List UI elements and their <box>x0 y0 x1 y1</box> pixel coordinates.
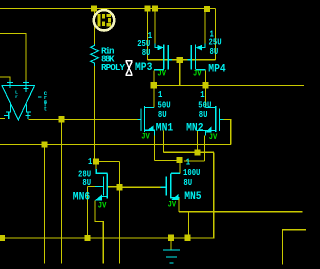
svg-text:1: 1 <box>200 89 205 100</box>
wire MN6 gate stub <box>88 186 96 188</box>
ground symbol <box>163 250 180 263</box>
svg-text:JV: JV <box>209 133 218 142</box>
svg-text:MN1: MN1 <box>156 122 174 134</box>
svg-text:JV: JV <box>98 202 107 211</box>
svg-text:8U: 8U <box>199 109 208 120</box>
wire gate bus <box>148 59 216 61</box>
svg-text:1: 1 <box>186 156 191 167</box>
MN2 labels <box>186 89 211 134</box>
wire MP3 source drop <box>154 9 156 44</box>
svg-text:r: r <box>15 95 18 100</box>
MP4 labels <box>208 29 226 76</box>
junction square mirror tie <box>144 5 150 11</box>
wire tail bus H2 <box>163 151 213 153</box>
wire MP4 source drop <box>204 9 206 44</box>
resistor Rin zigzag <box>91 44 98 66</box>
wire MN2 bulk drop <box>197 131 199 153</box>
wire bias column from output square <box>61 119 63 263</box>
junction square MP3 source <box>152 5 158 11</box>
svg-text:MN6: MN6 <box>73 191 90 203</box>
wire output 2 rail <box>179 211 303 213</box>
svg-text:8U: 8U <box>183 177 192 188</box>
wire MN6 drain stub <box>95 165 97 170</box>
junction square MN5 source bottom <box>184 235 190 241</box>
svg-text:MN5: MN5 <box>184 191 202 203</box>
svg-text:JV: JV <box>141 132 150 141</box>
wire MN5 source drop <box>178 198 180 212</box>
wire MN5 gate bus <box>120 186 161 188</box>
svg-text:8U: 8U <box>142 47 151 58</box>
junction square MN5 drain <box>176 157 182 163</box>
svg-text:8U: 8U <box>158 109 167 120</box>
wire MN2 gate loop <box>223 120 230 145</box>
wire op-amp input 1 <box>0 34 26 81</box>
wire resistor top feed <box>94 9 96 45</box>
resistor Rin labels <box>101 45 125 73</box>
junction square op-amp output <box>58 116 64 122</box>
svg-text:8U: 8U <box>82 177 91 188</box>
MN6 labels <box>73 156 93 203</box>
junction square MN6 drain <box>93 158 99 164</box>
wire MN1 source drop <box>154 136 156 161</box>
wire output2 to bottom rail <box>188 212 190 238</box>
wire mirror tie drop <box>147 9 149 61</box>
wire ground stub <box>170 238 172 250</box>
wire left column <box>44 145 46 264</box>
wire bottom rail <box>0 237 215 239</box>
wire op-amp output to MN1 gate <box>29 118 138 120</box>
wire H2 down to bottom rail <box>213 152 215 238</box>
wire VDD rail top <box>0 8 216 10</box>
wire MN5 drain drop <box>179 163 181 173</box>
wire MP3 drain / MN1 drain column <box>153 70 155 107</box>
op-amp vertical label <box>44 90 48 112</box>
marker hourglass <box>126 61 133 76</box>
wire mid rail 2 <box>0 144 231 146</box>
transistor MP3 <box>154 44 172 70</box>
junction square right mid node <box>202 82 208 88</box>
junction square top left <box>91 5 97 11</box>
wire mid node rail + output right <box>154 84 304 86</box>
MN1 labels <box>156 89 174 134</box>
svg-text:1: 1 <box>158 89 163 100</box>
transistor MN5 <box>161 173 181 198</box>
junction square MP4 source <box>204 6 210 12</box>
wire MN2 source drop <box>204 136 206 162</box>
svg-text:MP4: MP4 <box>208 64 226 76</box>
transistor MP4 <box>188 44 206 70</box>
wire MN2 source to MN5 drain <box>184 160 205 162</box>
highlight circle marker <box>94 10 114 30</box>
wire MP4 drain / MN2 drain column <box>205 70 207 107</box>
transistor MN1 <box>138 106 155 136</box>
svg-text:MP3: MP3 <box>135 62 153 74</box>
junction square MN6 gate bottom <box>84 235 90 241</box>
transistor MN6 <box>95 169 107 199</box>
svg-text:JV: JV <box>193 69 202 78</box>
svg-text:MN2: MN2 <box>186 122 203 134</box>
wire op-amp left stub <box>0 118 5 120</box>
svg-text:1: 1 <box>88 156 93 167</box>
wire gate square drop <box>179 60 181 85</box>
wire MN6 source jog <box>95 201 103 264</box>
MP3 labels <box>135 30 153 74</box>
svg-text:RPOLY: RPOLY <box>101 62 125 73</box>
svg-text:8U: 8U <box>210 46 219 57</box>
wire gate feed right <box>215 9 217 61</box>
wire MN6 drain node right <box>96 161 120 163</box>
svg-text:JV: JV <box>157 69 166 78</box>
wire bottom right corner <box>283 230 307 265</box>
junction square MN5 gate node <box>116 184 122 190</box>
transistor MN2 <box>197 106 224 136</box>
MN5 labels <box>183 156 202 203</box>
junction square bottom rail left end <box>0 235 5 241</box>
junction square mid rail left <box>41 141 47 147</box>
svg-text:t: t <box>44 105 47 112</box>
wire MN1 bulk drop <box>162 131 164 153</box>
wire MN6 node column <box>119 162 121 264</box>
svg-text:JV: JV <box>168 201 177 210</box>
op-amp U1 <box>2 81 42 121</box>
junction square left mid node <box>151 82 157 88</box>
wire op-amp input 2 <box>0 77 10 81</box>
junction square ground <box>168 235 174 241</box>
wire MN6 bulk stub <box>108 186 117 188</box>
wire resistor bottom column <box>94 66 96 162</box>
wire MN6 gate drop <box>87 187 89 238</box>
junction square tail <box>194 149 200 155</box>
wire MN1 source to MN5 drain <box>155 160 177 162</box>
junction square gate tie <box>177 57 183 63</box>
